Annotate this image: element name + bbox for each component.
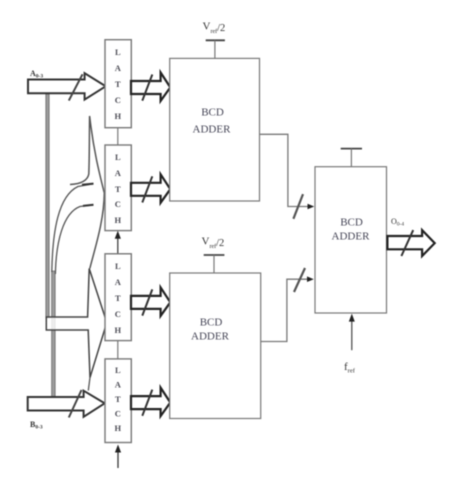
bus arrow latch4 to adder2 <box>131 388 170 417</box>
svg-text:ADDER: ADDER <box>193 124 232 136</box>
svg-text:BCD: BCD <box>200 317 223 329</box>
wire curved bus B to latch2 outer edge <box>52 184 93 272</box>
svg-text:Vref/2: Vref/2 <box>203 21 226 35</box>
svg-text:H: H <box>114 423 121 433</box>
wire latch3-latch4 connector <box>117 341 119 359</box>
bus arrow latch3 to adder2 <box>131 287 170 316</box>
bus slash output <box>401 230 413 256</box>
clock arrow into latch2 <box>117 238 119 254</box>
svg-text:A: A <box>115 63 122 73</box>
latch L4 <box>105 359 131 443</box>
bus slash latch1-adder1 <box>142 75 152 101</box>
wire arrow barb overshoot <box>88 378 90 391</box>
arrowhead into adder3 input 2 <box>307 276 314 282</box>
svg-text:A: A <box>115 168 122 178</box>
bus slash latch4-adder2 <box>142 390 152 416</box>
bus arrow latch2 to adder1 <box>131 174 170 203</box>
svg-text:A0-3: A0-3 <box>30 69 43 80</box>
svg-text:L: L <box>115 152 121 162</box>
svg-text:B0-3: B0-3 <box>30 420 43 431</box>
svg-text:T: T <box>115 293 121 303</box>
svg-text:ADDER: ADDER <box>332 231 371 243</box>
svg-text:T: T <box>115 184 121 194</box>
input arrow B <box>28 391 105 417</box>
latch L2 <box>105 145 131 231</box>
svg-text:BCD: BCD <box>201 107 224 119</box>
wire curved bus stub dark top <box>82 184 94 185</box>
bus slash latch3-adder2 <box>142 289 152 315</box>
wire bus B vertical gray bar <box>52 271 56 397</box>
svg-text:C: C <box>115 409 121 419</box>
svg-text:C: C <box>115 95 121 105</box>
reference tick above adder U3 <box>341 148 362 150</box>
latch L3 <box>105 254 131 341</box>
arrowhead into adder3 input 1 <box>308 204 315 210</box>
bus slash adder2-adder3 <box>294 268 305 292</box>
wire curved bus B to latch2 inner edge <box>55 205 93 274</box>
bus slash latch2-adder1 <box>142 176 152 202</box>
svg-text:H: H <box>114 215 121 225</box>
svg-text:A: A <box>115 380 122 390</box>
wire adder1 output to adder3 <box>260 134 309 206</box>
clock input fref into adder U3 <box>351 321 353 350</box>
svg-text:A: A <box>115 277 122 287</box>
svg-text:BCD: BCD <box>340 217 363 229</box>
svg-text:T: T <box>115 394 121 404</box>
wire curved arrowhead into latch2 <box>70 116 104 269</box>
svg-text:L: L <box>115 47 121 57</box>
bus slash adder1-adder3 <box>293 194 303 219</box>
wire adder2 output to adder3 <box>261 279 309 341</box>
svg-text:fref: fref <box>344 361 356 375</box>
svg-text:H: H <box>114 111 121 121</box>
BCD adder U2 <box>170 273 261 419</box>
BCD adder U3 <box>315 167 387 313</box>
svg-text:L: L <box>115 261 121 271</box>
svg-text:O0-4: O0-4 <box>391 217 404 228</box>
wire curved bus stub dark bottom <box>83 205 94 206</box>
svg-text:T: T <box>115 79 121 89</box>
input arrow A <box>28 73 106 99</box>
svg-text:C: C <box>115 309 121 319</box>
svg-text:Vref/2: Vref/2 <box>202 236 225 250</box>
wire bus A vertical gray bar <box>46 94 49 318</box>
wire latch1-latch2 connector <box>117 128 119 145</box>
latch L1 <box>105 40 131 128</box>
BCD adder U1 <box>170 58 260 201</box>
svg-text:L: L <box>115 365 121 375</box>
wire block arrow A bus into latch3 <box>46 269 107 378</box>
bus slash on A arrow <box>69 74 83 100</box>
bus slash on B arrow <box>69 390 82 418</box>
svg-text:H: H <box>114 325 121 335</box>
output arrow O0-4 <box>387 230 434 256</box>
svg-text:ADDER: ADDER <box>191 331 230 343</box>
clock arrow into latch4 <box>117 452 119 468</box>
bus arrow latch1 to adder1 <box>131 73 170 102</box>
svg-text:C: C <box>115 199 121 209</box>
